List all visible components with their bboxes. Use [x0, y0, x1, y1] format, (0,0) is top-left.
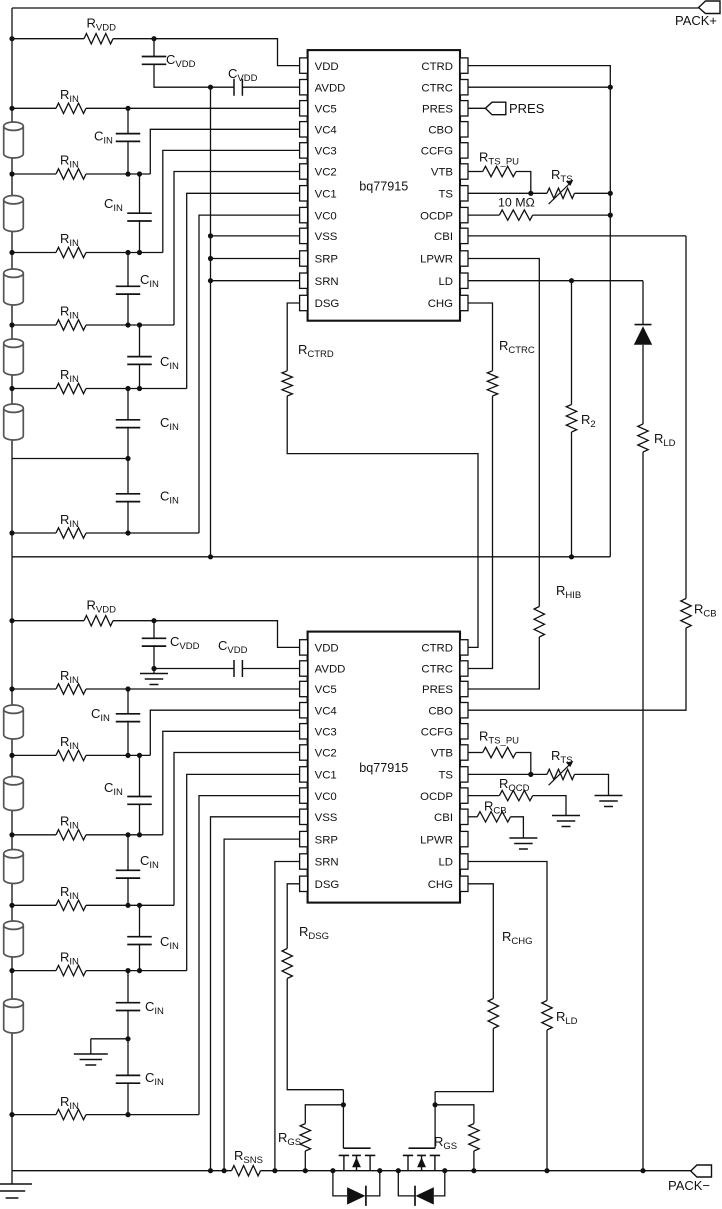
wire row top row2 (VC4) to ladder — [86, 173, 150, 175]
svg-text:SRN: SRN — [315, 276, 339, 288]
pin PRES U1 — [422, 101, 468, 116]
wire mid rail (stack interconnect) — [12, 556, 610, 558]
battery cell 1 (top) — [4, 122, 24, 158]
junction VSS net at mid rail — [208, 554, 213, 559]
svg-text:LPWR: LPWR — [420, 834, 453, 846]
wire CVDD stem (bottom) — [153, 621, 155, 639]
junction left rail / row top row4 (VC2) — [9, 322, 14, 327]
wire CIN colA seg3 (top) — [127, 389, 129, 420]
capacitor CIN 4 (bottom) — [127, 937, 152, 945]
wire RTS_PU corner to TS row (bottom) — [516, 753, 531, 775]
junction row1 / CIN col (top) — [125, 106, 130, 111]
wire SRN (bottom) to rail — [275, 862, 300, 1171]
wire gate1 vertical — [342, 1090, 344, 1149]
pin CBO U1 — [428, 122, 468, 137]
wire VSS net vertical (top) — [210, 87, 212, 557]
svg-text:VTB: VTB — [431, 167, 453, 179]
junction left rail / RVDD (top) — [9, 36, 14, 41]
battery cell 3 (top) — [4, 269, 24, 305]
pin CBO U2 — [428, 703, 468, 718]
svg-text:LD: LD — [438, 276, 453, 288]
wire RGS2 to rail — [473, 1151, 475, 1171]
junction left rail / row bottom row5 (VC1) — [9, 968, 14, 973]
pin OCDP U2 — [420, 788, 468, 803]
svg-text:VC3: VC3 — [315, 146, 337, 158]
junction left rail / row bottom row1 (VC5) — [9, 686, 14, 691]
wire R2 to mid rail — [571, 432, 573, 557]
wire RTS to net (top) — [575, 192, 611, 194]
diode Q1 body diode — [333, 1171, 380, 1206]
wire RVDD to VDD pin (bottom) — [113, 621, 300, 648]
wire CIN colA seg2 (bottom) — [127, 835, 129, 871]
capacitor CVDD (top VDD decoupling) — [142, 57, 167, 65]
wire RCTRC route to bottom CTRC — [468, 396, 493, 669]
wire row top row4 (VC2) to ladder — [86, 324, 174, 326]
wire CVDD2 to AVDD pin (bottom) — [242, 668, 299, 670]
wire left battery rail bottom stack — [11, 557, 13, 1171]
junction RVDD / CVDD (bottom) — [151, 618, 156, 623]
pin AVDD U1 — [300, 80, 346, 95]
junction row5b / CIN colB — [137, 968, 142, 973]
junction SRPb / rail — [222, 1168, 227, 1173]
resistor RSNS — [232, 1166, 261, 1176]
resistor RTS thermistor (top) — [547, 180, 574, 204]
junction Q2 drain / rail — [396, 1168, 401, 1173]
junction VSS net / SRN pin (top) — [208, 278, 213, 283]
pin CHG U2 — [428, 876, 468, 891]
junction row3b / CIN colA — [125, 832, 130, 837]
wire VTB to RTS_PU (top) — [468, 171, 483, 173]
junction left rail / row top row3 (VC3) — [9, 250, 14, 255]
node PRES flag (top) — [468, 101, 545, 116]
wire LD chain top seg — [642, 281, 644, 325]
junction row6 / CIN colA (top) — [125, 456, 130, 461]
wire CHG to RCHG (bottom) — [468, 884, 493, 999]
battery cell 2 (top) — [4, 196, 24, 232]
pin PRES U2 — [422, 681, 468, 696]
wire row top row5 (VC1) to ladder — [86, 388, 187, 390]
wire row bottom row1 (VC5) to VC5 pin — [86, 688, 300, 690]
wire CHG to RCTRC (top) — [468, 303, 493, 371]
wire CIN colB seg1 (bottom) — [139, 755, 141, 796]
wire CIN colA seg3b (top) — [127, 427, 129, 459]
wire CIN colA seg4 (top) — [127, 459, 129, 494]
pin CTRC U1 — [421, 80, 468, 95]
wire CIN colA seg1 (top) — [127, 108, 129, 133]
junction LD chain / PACK- rail — [640, 1168, 645, 1173]
junction Q1 drain / rail — [377, 1168, 382, 1173]
svg-text:10 MΩ: 10 MΩ — [498, 196, 535, 210]
svg-text:VC5: VC5 — [315, 104, 337, 116]
wire RCTRD route to bottom CTRD — [287, 396, 478, 647]
wire row bottom row3 (VC3) to ladder — [86, 834, 163, 836]
wire RIN row top row3 (VC3) left — [12, 252, 56, 254]
ground main PACK- ground — [0, 1184, 32, 1198]
junction row2 / CIN colB (top) — [137, 171, 142, 176]
pin LPWR U2 — [420, 831, 468, 846]
capacitor CIN 3 (top) — [116, 286, 141, 294]
wire RIN row top row4 (VC2) left — [12, 324, 56, 326]
pin VTB U1 — [431, 164, 468, 179]
terminal PACK+ — [675, 1, 720, 28]
wire bottom rail right of RSNS — [261, 1170, 691, 1172]
wire CBI row left (bottom) — [468, 816, 477, 818]
pin CTRC U2 — [421, 661, 468, 676]
wire CIN colB seg2b (top) — [139, 364, 141, 389]
resistor RTS thermistor (bottom) — [547, 761, 574, 785]
resistor RIN bottom row2 (VC4) — [56, 750, 86, 760]
wire bottom row6 (CIN mid to ground) — [91, 1038, 128, 1040]
wire DSG (bottom) to RDSG — [287, 884, 299, 949]
wire CIN colA seg3b (bottom) — [127, 1010, 129, 1039]
wire DSG to RCTRD (top) — [287, 303, 299, 371]
svg-text:OCDP: OCDP — [420, 210, 453, 222]
op-amp U1 bq77915 IC body — [308, 50, 460, 321]
wire RGS1 branch — [305, 1105, 343, 1124]
wire RCBb to ground — [511, 817, 524, 838]
resistor RCTRC — [487, 371, 497, 396]
wire ladder top row5 (VC1) vertical — [187, 193, 300, 388]
junction left rail / row bottom row7 (VC0) — [9, 1112, 14, 1117]
wire ladder bottom row4 (VC2) vertical — [174, 753, 300, 906]
junction row1b / CIN col — [125, 686, 130, 691]
junction Q1 source / rail — [330, 1168, 335, 1173]
svg-text:VC5: VC5 — [315, 684, 337, 696]
wire RLD (bottom) to rail — [546, 1030, 548, 1171]
wire RHIB to PRES (bottom) — [468, 637, 539, 689]
wire CVDD to gnd node (bottom) — [154, 645, 234, 668]
resistor RCB (bottom CBI) — [477, 812, 510, 822]
pin VC4 U1 — [300, 122, 337, 137]
wire RIN row bottom row1 (VC5) left — [12, 688, 56, 690]
pin LPWR U1 — [420, 251, 468, 266]
battery cell 1 (bottom) — [4, 705, 24, 739]
junction TS / RTS_PU junction (top) — [528, 191, 533, 196]
wire ladder top row3 (VC3) vertical — [163, 150, 300, 252]
capacitor CIN 2 (bottom) — [127, 797, 152, 805]
pin VC3 U2 — [300, 724, 337, 739]
wire R2 vertical upper — [571, 281, 573, 405]
pin VDD U2 — [300, 640, 339, 655]
wire CIN colB seg2b (bottom) — [139, 944, 141, 971]
svg-text:DSG: DSG — [315, 298, 340, 310]
wire RIN row bottom row5 (VC1) left — [12, 970, 56, 972]
svg-text:DSG: DSG — [315, 879, 340, 891]
svg-text:CHG: CHG — [428, 298, 453, 310]
pin LD U2 — [438, 854, 468, 869]
pin CBI U2 — [434, 809, 468, 824]
svg-text:PRES: PRES — [422, 684, 453, 696]
junction gate1 / RGS junction — [341, 1102, 346, 1107]
resistor 10 Mohm OCDP (top) — [499, 210, 532, 220]
svg-text:VSS: VSS — [315, 231, 338, 243]
junction left rail / row top row1 (VC5) — [9, 106, 14, 111]
svg-text:OCDP: OCDP — [420, 791, 453, 803]
junction left rail / row bottom row3 (VC3) — [9, 832, 14, 837]
pin SRN U2 — [300, 854, 339, 869]
svg-text:SRN: SRN — [315, 857, 339, 869]
svg-text:CCFG: CCFG — [421, 146, 453, 158]
junction VSS net / AVDD cap (top) — [208, 85, 213, 90]
resistor RVDD (bottom) — [84, 616, 113, 626]
wire ladder bottom row2 (VC4) vertical — [150, 710, 299, 755]
junction VSS net / SRP pin (top) — [208, 256, 213, 261]
pin VSS U2 — [300, 809, 338, 824]
capacitor CIN 5 (top) — [116, 420, 141, 428]
pin VC4 U2 — [300, 703, 337, 718]
svg-text:VTB: VTB — [431, 748, 453, 760]
resistor RIN bottom row1 (VC5) — [56, 684, 86, 694]
wire OCDP row left (top) — [468, 214, 499, 216]
wire RVDD row left (top) — [12, 38, 84, 40]
wire CTRD to net (top) — [468, 66, 610, 557]
svg-text:CBI: CBI — [434, 812, 453, 824]
wire RIN row bottom row2 (VC4) left — [12, 754, 56, 756]
resistor RIN bottom row7 (VC0) — [56, 1109, 86, 1119]
svg-text:SRP: SRP — [315, 834, 338, 846]
resistor RIN top row1 (VC5) — [56, 103, 86, 113]
wire CIN colA seg1 (bottom) — [127, 689, 129, 714]
junction left rail / row top row2 (VC4) — [9, 171, 14, 176]
pin TS U2 — [438, 767, 468, 782]
wire RIN row top row5 (VC1) left — [12, 388, 56, 390]
pin VSS U1 — [300, 228, 338, 243]
svg-text:CBO: CBO — [428, 125, 453, 137]
svg-text:VC2: VC2 — [315, 748, 337, 760]
wire ladder top row2 (VC4) vertical — [150, 129, 299, 174]
capacitor CIN 6 (bottom) — [116, 1075, 141, 1083]
wire ladder bottom row7 (VC0) vertical — [199, 796, 300, 1115]
svg-text:CHG: CHG — [428, 879, 453, 891]
wire CIN colA seg2b (bottom) — [127, 877, 129, 905]
wire ROCD to ground — [533, 796, 566, 816]
capacitor CVDD2 (top AVDD decoupling) — [234, 79, 242, 96]
svg-text:CTRD: CTRD — [421, 643, 453, 655]
wire CIN colB seg1 (top) — [139, 174, 141, 213]
junction row2b / CIN colB — [137, 753, 142, 758]
junction row6b / CIN colA — [125, 1036, 130, 1041]
wire VSS (bottom) to rail — [211, 817, 300, 1171]
pin VC0 U2 — [300, 788, 337, 803]
wire row top row7 (VC0) to ladder — [86, 532, 199, 534]
wire RIN row top row2 (VC4) left — [12, 173, 56, 175]
resistor RIN bottom row3 (VC3) — [56, 830, 86, 840]
wire RIN row top row7 (VC0) left — [12, 532, 56, 534]
wire bottom rail left of RSNS — [12, 1170, 232, 1172]
svg-text:PACK+: PACK+ — [675, 13, 717, 28]
junction RLDb / rail — [544, 1168, 549, 1173]
svg-text:VC0: VC0 — [315, 791, 337, 803]
svg-text:VC0: VC0 — [315, 210, 337, 222]
wire TS row left (top) — [468, 192, 547, 194]
junction OCDP net junction (top) — [608, 213, 613, 218]
svg-text:VSS: VSS — [315, 812, 338, 824]
junction CTRC / net (top) — [608, 85, 613, 90]
resistor RLD (top) — [638, 424, 648, 452]
capacitor CIN 4 (top) — [127, 357, 152, 365]
resistor RLD (bottom) — [542, 1001, 552, 1031]
pin SRP U2 — [300, 831, 338, 846]
ground midstack ground — [74, 1054, 108, 1065]
wire left battery rail top stack — [11, 8, 13, 557]
wire gate2 vertical — [434, 1092, 436, 1149]
diode D1 (load detect, top) — [634, 325, 652, 345]
diode Q2 body diode — [398, 1171, 445, 1206]
junction row3 / CIN colB (top) — [137, 250, 142, 255]
wire RIN row bottom row4 (VC2) left — [12, 904, 56, 906]
wire row bottom row7 (VC0) to ladder — [86, 1114, 199, 1116]
wire LD chain mid seg — [642, 345, 644, 424]
wire RCHG to gate2 net — [435, 1029, 493, 1092]
svg-text:TS: TS — [438, 189, 453, 201]
wire RTS_PU corner to TS row (top) — [516, 172, 531, 194]
junction LD / R2 junction (top) — [569, 278, 574, 283]
capacitor CVDD2 (bottom AVDD decoupling) — [234, 660, 242, 677]
wire CVDD2 to AVDD pin (top) — [242, 86, 299, 88]
pin DSG U2 — [300, 876, 340, 891]
pin VC3 U1 — [300, 143, 337, 158]
svg-text:bq77915: bq77915 — [359, 179, 408, 193]
battery cell 5 (bottom) — [4, 999, 24, 1033]
wire LPWR to RHIB (top) — [468, 259, 539, 607]
wire row top row1 (VC5) to VC5 pin — [86, 107, 300, 109]
svg-text:VC2: VC2 — [315, 167, 337, 179]
wire ladder bottom row3 (VC3) vertical — [163, 731, 300, 835]
wire RIN row top row1 (VC5) left — [12, 107, 56, 109]
wire gnd stem CVDD (bottom) — [153, 669, 155, 674]
junction R2 / mid rail — [569, 554, 574, 559]
pin CCFG U1 — [421, 143, 468, 158]
resistor RIN top row5 (VC1) — [56, 383, 86, 393]
svg-text:CTRD: CTRD — [421, 61, 453, 73]
wire CIN colA seg2 (top) — [127, 253, 129, 287]
wire RTS to ground (bottom) — [575, 774, 609, 795]
svg-text:PRES: PRES — [422, 104, 453, 116]
wire ground stem main — [11, 1171, 13, 1184]
ground CBI ground (bottom) — [509, 838, 537, 849]
terminal PACK- — [668, 1165, 712, 1193]
pin VDD U1 — [300, 58, 339, 73]
battery cell 4 (top) — [4, 339, 24, 375]
svg-text:AVDD: AVDD — [315, 82, 346, 94]
resistor RTS_PU (bottom) — [483, 747, 516, 757]
wire RGS1 to rail — [304, 1151, 306, 1171]
junction TS / RTS_PU junction (bottom) — [528, 772, 533, 777]
junction row4b / CIN colA — [125, 903, 130, 908]
battery cell 4 (bottom) — [4, 921, 24, 957]
junction VSSb / rail — [208, 1168, 213, 1173]
wire ladder top row7 (VC0) vertical — [199, 215, 300, 533]
svg-text:PRES: PRES — [509, 101, 545, 116]
resistor RVDD (top) — [84, 34, 113, 44]
battery cell 5 (top) — [4, 404, 24, 440]
wire VSS pin stub (top) — [211, 235, 300, 237]
svg-text:VC4: VC4 — [315, 125, 337, 137]
svg-text:SRP: SRP — [315, 254, 338, 266]
wire CIN colA seg2b (top) — [127, 293, 129, 325]
capacitor CIN 1 (top) — [116, 134, 141, 142]
wire row bottom row2 (VC4) to ladder — [86, 754, 150, 756]
svg-text:CTRC: CTRC — [421, 664, 453, 676]
svg-text:CCFG: CCFG — [421, 727, 453, 739]
pin VC5 U2 — [300, 681, 337, 696]
transistor Q2 CHG FET — [403, 1148, 440, 1171]
capacitor CIN 5 (bottom) — [116, 1003, 141, 1011]
junction SRNb / rail — [272, 1168, 277, 1173]
wire SRN pin stub (top) — [211, 280, 300, 282]
junction left rail / row top row5 (VC1) — [9, 386, 14, 391]
junction left rail / row top row7 (VC0) — [9, 530, 14, 535]
pin VC0 U1 — [300, 207, 337, 222]
wire CIN colB seg2 (bottom) — [139, 905, 141, 936]
resistor ROCD (bottom) — [499, 790, 532, 800]
pin DSG U1 — [300, 295, 340, 310]
wire CIN colA seg1b (top) — [127, 141, 129, 174]
wire CBI row (top) — [468, 235, 686, 237]
pin CBI U1 — [434, 228, 468, 243]
resistor RHIB — [534, 607, 544, 637]
pin VC5 U1 — [300, 101, 337, 116]
resistor RIN top row3 (VC3) — [56, 247, 86, 257]
wire VTB to RTS_PU (bottom) — [468, 752, 483, 754]
svg-text:LPWR: LPWR — [420, 254, 453, 266]
pin TS U1 — [438, 186, 468, 201]
junction row5b / CIN colA — [125, 968, 130, 973]
resistor RIN top row7 (VC0) — [56, 528, 86, 538]
wire RCB vertical lower — [468, 628, 686, 710]
wire ladder bottom row5 (VC1) vertical — [187, 774, 300, 970]
capacitor CIN 3 (bottom) — [116, 870, 141, 878]
resistor RCTRD — [282, 371, 292, 396]
pin VC1 U1 — [300, 186, 337, 201]
ground OCD ground (bottom) — [552, 816, 580, 827]
wire CIN colB seg1b (bottom) — [139, 804, 141, 835]
capacitor CVDD (bottom VDD decoupling) — [142, 638, 167, 646]
pin OCDP U1 — [420, 207, 468, 222]
svg-text:AVDD: AVDD — [315, 664, 346, 676]
junction row7 / CIN colA (top) — [125, 530, 130, 535]
junction Q2 source / rail — [442, 1168, 447, 1173]
junction VSS net / VSS pin (top) — [208, 233, 213, 238]
wire RCB vertical upper — [685, 236, 687, 599]
wire SRP (bottom) to rail — [224, 839, 300, 1171]
wire row bottom row4 (VC2) to ladder — [86, 904, 174, 906]
wire SRP pin stub (top) — [211, 258, 300, 260]
pin VC2 U1 — [300, 164, 337, 179]
junction row3 / CIN colA (top) — [125, 250, 130, 255]
resistor RIN bottom row4 (VC2) — [56, 900, 86, 910]
wire CTRC to net (top) — [468, 86, 610, 88]
svg-text:VC3: VC3 — [315, 727, 337, 739]
wire TS row left (bottom) — [468, 773, 547, 775]
pin VC1 U2 — [300, 767, 337, 782]
battery cell 3 (bottom) — [4, 850, 24, 884]
junction row4 / CIN colB (top) — [137, 322, 142, 327]
wire OCDP to net (top) — [533, 214, 611, 216]
pin LD U1 — [438, 273, 468, 288]
pin AVDD U2 — [300, 661, 346, 676]
resistor RDSG — [282, 949, 292, 979]
wire RVDD row left (bottom) — [12, 620, 84, 622]
wire ladder top row4 (VC2) vertical — [174, 172, 300, 326]
junction left rail / row bottom row2 (VC4) — [9, 753, 14, 758]
junction CVDD gnd node (bottom) — [151, 666, 156, 671]
svg-text:VC1: VC1 — [315, 770, 337, 782]
svg-text:CTRC: CTRC — [421, 82, 453, 94]
svg-text:LD: LD — [438, 857, 453, 869]
junction RVDD / CVDD (top) — [151, 36, 156, 41]
svg-text:VC4: VC4 — [315, 705, 337, 717]
